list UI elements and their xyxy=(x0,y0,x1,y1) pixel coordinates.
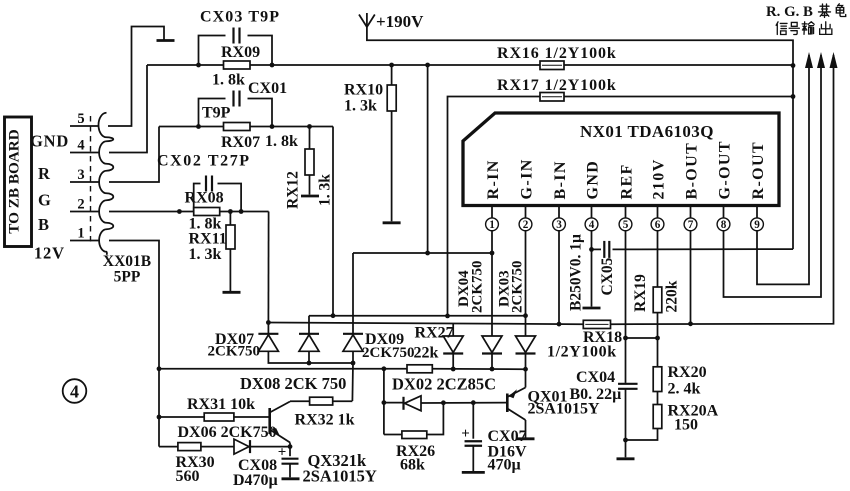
node RX07 right xyxy=(270,124,275,129)
svg-text:RX11: RX11 xyxy=(189,231,227,248)
ground (QX01 collector) xyxy=(517,437,535,440)
svg-text:2CK750: 2CK750 xyxy=(470,261,486,314)
svg-text:1: 1 xyxy=(489,219,495,231)
label QX32 type 2SA1015Y xyxy=(303,467,377,486)
svg-text:12V: 12V xyxy=(34,244,65,263)
svg-text:GND: GND xyxy=(30,132,69,151)
svg-text:RX31 10k: RX31 10k xyxy=(187,396,255,413)
node pin2 at G rail xyxy=(523,313,528,318)
svg-text:RX19: RX19 xyxy=(632,274,649,312)
wire RX17 to 190V xyxy=(564,96,793,98)
wire RX31 row xyxy=(159,416,204,418)
svg-text:DX08 2CK 750: DX08 2CK 750 xyxy=(240,374,346,393)
pin 6 stub and number xyxy=(651,206,664,237)
label CX04 xyxy=(576,369,615,386)
svg-text:4: 4 xyxy=(589,219,595,231)
svg-text:8: 8 xyxy=(721,219,727,231)
svg-text:RX07: RX07 xyxy=(221,134,260,151)
pin label GND xyxy=(584,160,601,200)
svg-text:RX09: RX09 xyxy=(221,44,260,61)
svg-text:1/2Y100k: 1/2Y100k xyxy=(547,344,617,361)
label RX10 value 1.3k xyxy=(344,98,377,115)
node RX26 right at ROW-D xyxy=(441,400,446,405)
label RX12 xyxy=(285,171,302,209)
wire DX02 branch riser xyxy=(383,369,385,435)
wire RX20 to RX20A xyxy=(657,392,659,405)
ground (RX10) xyxy=(383,221,401,224)
wire RX17 row xyxy=(448,97,541,317)
label RX18 xyxy=(583,329,622,346)
svg-text:D470µ: D470µ xyxy=(233,472,278,489)
label DX08 2CK 750 xyxy=(240,374,346,393)
label QX01 type 2SA1015Y xyxy=(528,401,600,418)
connector XX01B contact arcs xyxy=(98,113,113,255)
wire ROW-D left xyxy=(384,402,404,404)
wire RX16 to 190V xyxy=(564,64,793,66)
resistor RX09 xyxy=(224,61,251,69)
svg-text:RX20: RX20 xyxy=(668,364,707,381)
diode DX07 2CK750 xyxy=(258,323,278,352)
svg-text:1. 8k: 1. 8k xyxy=(212,72,245,89)
label RX08 value 1.8k xyxy=(189,216,222,233)
svg-text:3: 3 xyxy=(556,219,562,231)
diode DX03 2CK750 xyxy=(482,336,502,369)
pin 4 stub and number xyxy=(585,206,598,237)
svg-text:B-IN: B-IN xyxy=(552,160,569,199)
connector pin 5 stub and number xyxy=(70,111,99,127)
wire RX30 to DX06 xyxy=(201,446,234,448)
label DX07 xyxy=(208,331,261,360)
label RX17 1/2Y100k xyxy=(497,77,617,94)
label RX09 value 1.8k xyxy=(212,72,245,89)
label signal-output (hanzi drawn below) xyxy=(0,0,1,1)
node ROW-D start xyxy=(382,400,387,405)
connector pin label 12V xyxy=(34,244,65,263)
pin label G-OUT xyxy=(716,140,733,199)
svg-text:TO ZB BOARD: TO ZB BOARD xyxy=(6,129,23,233)
resistor RX31 xyxy=(204,413,234,421)
pin 8 stub and number xyxy=(717,206,730,237)
wire pin4 GND vertical xyxy=(591,236,593,307)
node DX03 bottom xyxy=(490,367,495,372)
svg-text:2CK750: 2CK750 xyxy=(510,261,526,314)
pin 1 stub and number xyxy=(486,206,499,237)
label RX30 560 xyxy=(176,454,215,485)
wire CX05 to 190V vertical xyxy=(613,248,794,250)
node G drop at rail xyxy=(331,313,336,318)
pin 9 stub and number xyxy=(751,206,764,237)
wire RX20A to ground xyxy=(626,429,658,441)
pin label REF xyxy=(618,163,635,199)
label RX07 1.8k xyxy=(221,133,298,151)
wire pin5 GND up to chassis ground xyxy=(108,27,164,127)
label DX02 2CZ85C xyxy=(392,375,496,394)
resistor RX16 xyxy=(540,61,564,70)
connector pin 4 stub and number xyxy=(70,138,99,154)
svg-text:210V: 210V xyxy=(650,158,667,199)
wire RX18 to B-OUT corner xyxy=(611,55,834,324)
node R-IN drop xyxy=(425,63,430,68)
ground (IC pin4) xyxy=(583,307,601,310)
hanzi 输 xyxy=(802,22,814,35)
svg-text:RX27: RX27 xyxy=(415,325,454,342)
label RX09 xyxy=(221,44,260,61)
svg-text:CX05: CX05 xyxy=(599,257,616,295)
wire +190V rail xyxy=(367,28,793,249)
hanzi 基 xyxy=(819,4,831,17)
svg-text:B-OUT: B-OUT xyxy=(683,142,700,200)
node CX07 top xyxy=(471,400,476,405)
diode DX08 2CK750 xyxy=(299,316,319,352)
node REF left xyxy=(623,336,628,341)
svg-text:R-IN: R-IN xyxy=(485,159,502,199)
capacitor CX01 xyxy=(234,91,240,107)
resistor RX07 xyxy=(224,123,251,131)
svg-text:150: 150 xyxy=(674,417,698,434)
svg-text:4: 4 xyxy=(77,138,84,154)
resistor RX19 xyxy=(653,287,662,313)
node 12V rail left xyxy=(157,366,162,371)
svg-text:B: B xyxy=(38,215,50,234)
wire 12V rail right xyxy=(432,368,525,370)
label QX01 xyxy=(528,386,622,406)
svg-text:2CK750: 2CK750 xyxy=(362,345,415,361)
connector pin 2 stub and number xyxy=(70,197,99,213)
node pin3 at B rail xyxy=(557,322,562,327)
capacitor CX04 xyxy=(618,384,638,389)
hanzi 号 xyxy=(789,22,799,34)
label CX05 xyxy=(599,257,616,295)
diode DX04 2CK750 xyxy=(443,324,463,370)
label DX09 xyxy=(362,331,415,361)
svg-text:1. 8k: 1. 8k xyxy=(265,133,298,150)
connector pin label GND xyxy=(30,132,69,151)
capacitor CX05 xyxy=(604,241,609,258)
label CX07 xyxy=(488,428,528,474)
resistor RX11 xyxy=(226,212,235,292)
wire diode bottom bus xyxy=(268,351,353,363)
svg-text:T9P: T9P xyxy=(202,105,231,122)
pin label R-IN xyxy=(485,159,502,199)
wire QX32 collector to RX32 xyxy=(290,400,310,402)
figure number 4 circled xyxy=(63,379,87,403)
wire 12V rail xyxy=(159,368,407,370)
connector pin 1 stub and number xyxy=(70,226,99,242)
node RX16 drop at R row xyxy=(425,251,430,256)
node pin4 CX05 junction xyxy=(589,247,594,252)
pin 5 stub and number xyxy=(619,206,632,237)
svg-text:2SA1015Y: 2SA1015Y xyxy=(528,401,600,418)
op-amp IC NX01 TDA6103Q outline xyxy=(463,113,779,206)
connector pin label B xyxy=(38,215,50,234)
capacitor CX08 electrolytic xyxy=(278,445,299,478)
node CX02 right xyxy=(239,209,244,214)
svg-text:2: 2 xyxy=(523,219,529,231)
wire G rail (LINE-A) xyxy=(309,315,526,317)
capacitor CX07 electrolytic xyxy=(461,403,482,471)
wire pin6 below RX19 xyxy=(657,313,659,367)
svg-text:RX17 1/2Y100k: RX17 1/2Y100k xyxy=(497,77,617,94)
connector pin label R xyxy=(38,164,51,183)
label RX18 value 1/2Y100k xyxy=(547,344,617,361)
diode DX02 2CZ85C xyxy=(404,396,422,411)
svg-text:RX32 1k: RX32 1k xyxy=(295,412,355,429)
node pin7 at B rail xyxy=(688,321,693,326)
label RX20 xyxy=(668,364,707,398)
svg-text:1. 3k: 1. 3k xyxy=(189,246,222,263)
node B rail to DX07 xyxy=(266,320,271,325)
hanzi 信 xyxy=(776,22,787,35)
svg-text:G-OUT: G-OUT xyxy=(716,140,733,199)
resistor RX30 xyxy=(178,443,201,451)
svg-text:7: 7 xyxy=(688,219,694,231)
svg-text:3: 3 xyxy=(77,167,84,183)
wire pin8 G-OUT vertical xyxy=(724,55,822,297)
label RX20A xyxy=(668,403,719,434)
svg-text:22k: 22k xyxy=(414,345,439,362)
label RX31 10k xyxy=(187,396,255,413)
label RX11 xyxy=(189,231,227,248)
svg-text:XX01B: XX01B xyxy=(103,253,151,270)
connector name XX01B 5PP xyxy=(103,253,151,286)
svg-text:NX01 TDA6103Q: NX01 TDA6103Q xyxy=(580,122,714,141)
svg-text:1. 3k: 1. 3k xyxy=(317,174,334,206)
wire pin6 210V vertical xyxy=(657,236,659,287)
svg-text:GND: GND xyxy=(584,160,601,200)
svg-text:R-OUT: R-OUT xyxy=(750,141,767,200)
node RX09 left xyxy=(196,63,201,68)
svg-text:1. 3k: 1. 3k xyxy=(344,98,377,115)
hanzi 出 xyxy=(820,22,832,35)
capacitor CX02 xyxy=(206,176,212,192)
resistor RX27 xyxy=(407,365,432,373)
ground (CX04/RX20A) xyxy=(617,457,635,460)
resistor RX10 xyxy=(387,65,396,221)
wire pin3 B-IN vertical xyxy=(558,236,560,324)
label DX04 (rotated) xyxy=(456,261,486,314)
label R.G.B base-color xyxy=(766,4,813,20)
svg-text:+190V: +190V xyxy=(376,12,424,31)
svg-text:CX04: CX04 xyxy=(576,369,615,386)
wire R-IN drop vertical xyxy=(427,65,429,253)
diode DX06 2CK750 xyxy=(234,439,250,454)
svg-text:4: 4 xyxy=(70,381,79,401)
pin label B-IN xyxy=(552,160,569,199)
wire pin2 B to RX08 row xyxy=(109,211,194,213)
wire B rail (LINE-B) xyxy=(268,323,583,325)
resistor RX18 xyxy=(583,320,610,328)
label RX19 xyxy=(632,274,649,312)
wire REF node xyxy=(626,337,658,339)
wire pin2 G-IN vertical xyxy=(525,236,527,336)
label RX27 xyxy=(415,325,454,342)
pin label 210V xyxy=(650,158,667,199)
capacitor CX03 xyxy=(234,28,240,44)
G output arrow xyxy=(817,52,825,68)
node RX09 right xyxy=(270,63,275,68)
node REF right xyxy=(655,336,660,341)
wire R input row xyxy=(353,252,492,254)
pin 2 stub and number xyxy=(519,206,532,237)
pin label G-IN xyxy=(518,158,535,199)
resistor RX20 xyxy=(653,367,662,392)
wire pin9 R-OUT vertical xyxy=(757,55,809,284)
wire R row left segment xyxy=(147,64,540,66)
label CX01 xyxy=(248,80,287,97)
label RX19 value 220k xyxy=(664,280,681,312)
pin label R-OUT xyxy=(750,141,767,200)
connector pin 3 stub and number xyxy=(70,167,99,183)
pin 3 stub and number xyxy=(553,206,566,237)
label RX27 value 22k xyxy=(414,345,439,362)
wire RX32 up to bus xyxy=(333,400,353,402)
svg-text:RX10: RX10 xyxy=(344,82,383,99)
label +190V xyxy=(376,12,424,31)
node B row entry xyxy=(177,209,182,214)
label B250V0.1u xyxy=(568,234,585,311)
svg-text:B250V0. 1µ: B250V0. 1µ xyxy=(568,234,585,311)
svg-text:6: 6 xyxy=(655,219,661,231)
ground (top-left chassis) xyxy=(157,39,175,42)
pin 7 stub and number xyxy=(684,206,697,237)
wire pin5 REF vertical xyxy=(625,236,627,338)
label CX01 value T9P xyxy=(202,105,231,122)
label QX32 1k xyxy=(308,451,368,470)
resistor RX26 loop xyxy=(384,403,444,439)
node diode6 bottom / QX01 emitter xyxy=(523,367,528,372)
svg-text:9: 9 xyxy=(754,219,760,231)
svg-text:CX02 T27P: CX02 T27P xyxy=(157,153,251,170)
wire CX04 bottom xyxy=(625,390,627,440)
capacitor CX01 loop wires xyxy=(199,99,273,127)
diode DX09 2CK750 xyxy=(343,334,363,352)
svg-text:DX02 2CZ85C: DX02 2CZ85C xyxy=(392,375,496,394)
transistor QX01 2SA1015Y xyxy=(507,369,525,437)
svg-text:G: G xyxy=(38,191,52,210)
node RX07 left xyxy=(196,124,201,129)
svg-text:R: R xyxy=(38,164,51,183)
wire pin5 to CX04 xyxy=(625,338,627,383)
wire pin1 12V down left rail xyxy=(109,241,159,447)
connector XX01B board-edge box TO ZB BOARD xyxy=(5,117,32,247)
label RX26 xyxy=(396,443,435,474)
pin label B-OUT xyxy=(683,142,700,200)
diode DX05 (unlabelled) xyxy=(516,336,536,369)
node RX31 row at 12V xyxy=(157,415,162,420)
svg-text:CX01: CX01 xyxy=(248,80,287,97)
svg-text:REF: REF xyxy=(618,163,635,199)
node DX04 bottom xyxy=(451,367,456,372)
ground (CX07) xyxy=(462,471,485,474)
svg-text:2CK750: 2CK750 xyxy=(208,344,261,360)
svg-text:5: 5 xyxy=(77,111,84,127)
node pin1 at R row xyxy=(490,251,495,256)
node RX11 top xyxy=(228,209,233,214)
label CX08 xyxy=(233,457,278,489)
label CX03 T9P xyxy=(200,9,280,26)
wire pin7 B-OUT vertical xyxy=(690,236,692,324)
label RX10 xyxy=(344,82,383,99)
wire B row drop xyxy=(267,212,269,323)
hanzi 色 xyxy=(836,4,845,17)
svg-text:5: 5 xyxy=(623,219,629,231)
node DX09 at bus xyxy=(351,361,356,366)
wire DX06 to QX32 emitter node xyxy=(250,446,290,448)
node RX17 at 190V rail xyxy=(791,94,796,99)
wire DX09 bus down to RX32 xyxy=(351,363,354,401)
wire pin1 R-IN vertical xyxy=(491,236,493,336)
svg-text:+: + xyxy=(461,426,470,442)
capacitor CX03 loop wires xyxy=(199,36,273,66)
wire DX09 riser xyxy=(352,253,354,334)
ground (RX11) xyxy=(223,291,241,294)
ground (RX12) xyxy=(301,195,319,198)
wire ROW-D right xyxy=(421,402,508,404)
resistor RX20A xyxy=(653,405,662,429)
node RX16 at 190V rail xyxy=(791,63,796,68)
label RX32 1k xyxy=(295,412,355,429)
label NX01 TDA6103Q xyxy=(580,122,714,141)
label RX12 value 1.3k xyxy=(317,174,334,206)
resistor RX08 xyxy=(194,208,220,216)
svg-text:470µ: 470µ xyxy=(488,457,521,474)
node DX02 branch at 12V rail xyxy=(382,366,387,371)
connector dashed boundary line xyxy=(90,116,92,244)
resistor RX12 xyxy=(305,127,314,195)
node RX10 top xyxy=(389,63,394,68)
wire B row xyxy=(194,211,269,213)
wire node to ground xyxy=(625,440,627,457)
resistor RX32 xyxy=(310,397,333,405)
svg-text:5PP: 5PP xyxy=(114,269,141,286)
svg-text:RX08: RX08 xyxy=(185,190,224,207)
capacitor CX02 loop wires xyxy=(194,184,241,212)
B output arrow xyxy=(830,52,838,68)
resistor RX17 xyxy=(540,93,564,102)
svg-text:2SA1015Y: 2SA1015Y xyxy=(303,467,377,486)
label CX02 T27P xyxy=(157,153,251,170)
R output arrow xyxy=(805,52,813,68)
power +190V symbol xyxy=(359,13,375,28)
node CX04 ground junction xyxy=(623,438,628,443)
svg-text:560: 560 xyxy=(176,468,200,485)
wire G row drop xyxy=(332,127,334,316)
svg-text:2. 4k: 2. 4k xyxy=(668,381,701,398)
label DX03 (rotated) xyxy=(497,261,526,314)
wire pin4 to CX05 xyxy=(592,248,602,250)
svg-text:2: 2 xyxy=(77,197,84,213)
wire ROW-E left xyxy=(159,446,178,448)
svg-text:CX03 T9P: CX03 T9P xyxy=(200,9,280,26)
svg-text:R. G. B: R. G. B xyxy=(766,4,813,20)
node QX32 emitter junction xyxy=(288,444,293,449)
transistor QX32 2SA1015Y xyxy=(270,402,290,447)
svg-text:220k: 220k xyxy=(664,280,681,312)
svg-text:G-IN: G-IN xyxy=(518,158,535,199)
wire G row xyxy=(159,126,333,128)
ground (CX08) xyxy=(282,477,300,480)
label RX16 1/2Y100k xyxy=(497,45,617,62)
svg-text:RX12: RX12 xyxy=(285,171,302,209)
wire pin3 G up to G row xyxy=(109,127,159,183)
svg-text:68k: 68k xyxy=(400,457,425,474)
connector pin label G xyxy=(38,191,52,210)
node DX08 at bus xyxy=(307,361,312,366)
wire RX31 to QX32 base xyxy=(234,416,270,418)
svg-text:RX16 1/2Y100k: RX16 1/2Y100k xyxy=(497,45,617,62)
label DX06 2CK750 xyxy=(178,424,277,441)
svg-text:CX07: CX07 xyxy=(488,428,527,445)
